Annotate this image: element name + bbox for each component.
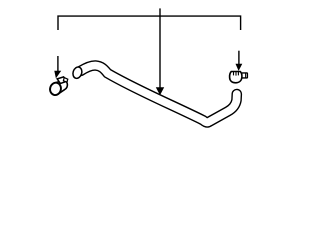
band body silhouette: [50, 80, 67, 95]
hose (black outline stroke): [81, 65, 237, 122]
band ring flat-top: [230, 72, 242, 83]
bracket callout: [58, 16, 241, 30]
arrow left: [57, 56, 59, 72]
screw housing right: [242, 73, 248, 78]
screw housing: [57, 77, 67, 84]
band front ring: [49, 82, 62, 97]
arrow right: [238, 51, 240, 65]
screw tip: [63, 78, 67, 83]
hose (white interior): [81, 65, 237, 122]
clamp left (hose clamp with screw housing): [49, 77, 68, 96]
band slots: [234, 72, 239, 76]
screw housing divider: [245, 73, 247, 77]
hose open end ellipse: [72, 66, 84, 80]
arrowhead center: [156, 87, 164, 95]
wire leader center: [159, 8, 161, 88]
clamp right (hose clamp with screw housing): [230, 72, 248, 83]
